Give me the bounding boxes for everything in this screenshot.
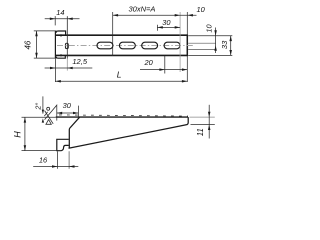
node: bottom tab profile [57,139,69,150]
dimension 10 right [188,35,232,37]
dimension L [55,80,187,82]
svg-text:11: 11 [196,128,205,136]
dimension 12,5 [54,59,56,82]
dimension 30xN=A [112,12,114,56]
dimension H [22,116,56,118]
svg-text:12,5: 12,5 [72,57,87,66]
svg-text:20: 20 [144,58,154,67]
node: weld dot bottom [60,54,62,56]
wire: slot horizontal center line (dash-dot) [57,45,194,47]
node: slot 3 [142,42,158,49]
wire: bar bottom edge [56,54,188,56]
dimension 14 [54,16,56,25]
svg-text:L: L [117,69,122,79]
dimension 30 side [56,106,58,121]
node: top tab [56,31,66,35]
node: base plate face line [54,31,56,59]
node: arm end slant cut and front face [69,117,79,148]
svg-text:46: 46 [24,40,33,49]
wire: end face inner lines right of bar [188,42,215,44]
wire: hidden dashed line above arm [59,115,188,116]
svg-text:14: 14 [56,8,64,17]
label 2 degrees [42,96,44,113]
dimension 33 [188,54,232,56]
node: slot 2 [119,42,135,49]
svg-text:30: 30 [63,101,72,110]
wire: hole vertical center line [66,16,68,58]
dimension 10 top [188,14,193,16]
svg-text:H: H [12,131,22,138]
node: base hole oval [65,43,68,49]
svg-text:33: 33 [220,40,229,49]
svg-text:30xN=A: 30xN=A [129,4,156,13]
wire: arm top edge [56,116,188,118]
dimension 16 [56,151,58,169]
weld symbol [45,105,58,120]
dimension 46 [34,30,57,32]
node: slot 4 [164,42,180,49]
svg-text:10: 10 [197,5,206,14]
svg-text:10: 10 [204,23,213,32]
svg-text:16: 16 [39,155,48,164]
node: slot 1 [97,42,113,49]
svg-text:30: 30 [162,18,171,27]
wire: bar top edge [56,34,188,36]
dimension 20 [164,56,166,74]
node: weld dot top [60,34,62,36]
node: arm tip and gusset diagonal [69,117,189,148]
svg-text:2°: 2° [33,103,42,111]
wire: bar right end [186,34,188,56]
dimension 11 [190,116,215,118]
node: bottom tab [56,55,66,58]
dimension 30 pitch [156,25,158,31]
